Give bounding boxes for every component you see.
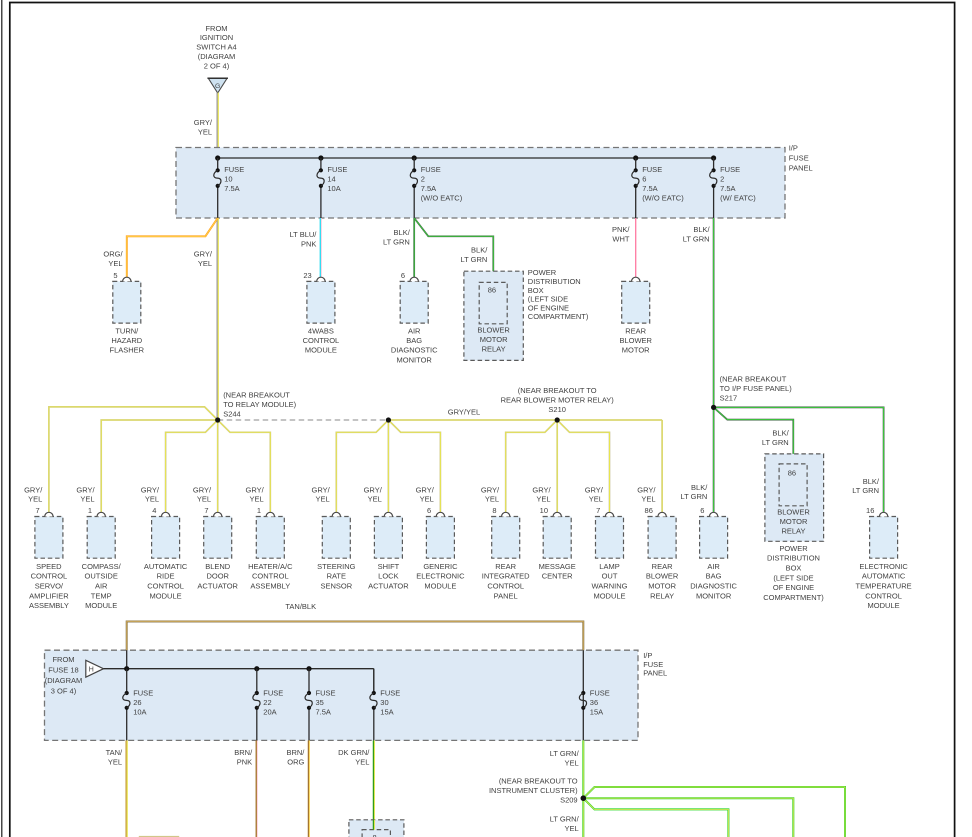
svg-text:FUSE: FUSE <box>133 689 153 698</box>
svg-text:BLOWER: BLOWER <box>477 326 510 335</box>
svg-text:YEL: YEL <box>250 495 264 504</box>
component: rear blower motor <box>619 277 652 355</box>
svg-text:OUT: OUT <box>602 572 618 581</box>
svg-text:8: 8 <box>492 506 496 515</box>
component: air bag diagnostic monitor (bottom), pin 6 <box>690 506 737 600</box>
svg-text:TAN/: TAN/ <box>106 748 123 757</box>
label GRY/YEL at x=336.3 <box>311 485 330 503</box>
svg-text:CONTROL: CONTROL <box>303 336 340 345</box>
svg-text:BAG: BAG <box>406 336 422 345</box>
svg-text:86: 86 <box>488 285 496 294</box>
component: SPEED CONTROL SERVO/ AMPLIFIER ASSEMBLY, pin 7 <box>29 506 69 610</box>
svg-text:ORG/: ORG/ <box>103 250 123 259</box>
svg-text:MODULE: MODULE <box>424 582 456 591</box>
wire GRY/YEL S244 to heater/A/C control assembly <box>218 420 271 512</box>
svg-text:PNK: PNK <box>237 758 252 767</box>
label DK GRN/YEL <box>338 748 370 767</box>
svg-text:PNK: PNK <box>301 239 316 248</box>
svg-text:ACTUATOR: ACTUATOR <box>368 582 409 591</box>
svg-text:S244: S244 <box>223 409 241 418</box>
svg-text:GRY/: GRY/ <box>76 485 95 494</box>
svg-text:REAR BLOWER MOTER RELAY): REAR BLOWER MOTER RELAY) <box>501 396 615 405</box>
svg-text:YEL: YEL <box>368 495 382 504</box>
svg-text:BLOWER: BLOWER <box>619 336 652 345</box>
I/P fuse panel (bottom) dashed box <box>45 650 639 740</box>
svg-text:7.5A: 7.5A <box>642 184 657 193</box>
svg-text:7.5A: 7.5A <box>316 708 331 717</box>
junction mid breakout dot <box>386 417 391 422</box>
junction dot on bottom bus at x=126.7 <box>124 666 129 671</box>
svg-text:RIDE: RIDE <box>157 572 175 581</box>
svg-text:G: G <box>215 83 220 90</box>
wire BRN/PNK from fuse 22 <box>256 740 257 837</box>
wire bus inside bottom I/P fuse panel <box>104 669 374 693</box>
wire DK GRN/YEL segment inside bottom box <box>373 820 374 830</box>
connector triangle H (from fuse 18) <box>86 660 104 677</box>
label GRY/YEL at x=48.9 <box>24 485 43 503</box>
svg-text:DISTRIBUTION: DISTRIBUTION <box>767 554 820 563</box>
svg-text:BRN/: BRN/ <box>234 748 253 757</box>
svg-text:MESSAGE: MESSAGE <box>539 562 576 571</box>
svg-text:14: 14 <box>327 175 335 184</box>
svg-text:TURN/: TURN/ <box>115 326 139 335</box>
component: electronic automatic temperature control module, pin 16 <box>856 506 912 610</box>
label (NEAR BREAKOUT TO INSTRUMENT CLUSTER) S209 <box>489 776 578 804</box>
wire GRY/YEL S210 to lamp out warning module <box>557 420 609 512</box>
svg-text:BLEND: BLEND <box>205 562 231 571</box>
svg-text:YEL: YEL <box>108 758 122 767</box>
svg-text:MOTOR: MOTOR <box>648 582 676 591</box>
wire BLK/LT GRN S217 to air bag diagnostic monitor (bottom) <box>713 407 715 512</box>
svg-text:SPEED: SPEED <box>36 562 62 571</box>
power distribution box (bottom) outer dashed box <box>765 454 824 541</box>
I/P fuse panel (top) dashed box <box>176 148 785 219</box>
wire GRY/YEL S210 to message center <box>556 420 558 512</box>
svg-text:BLK/: BLK/ <box>394 228 411 237</box>
svg-text:LT GRN: LT GRN <box>762 438 789 447</box>
fuse 14 10A <box>317 158 347 218</box>
svg-text:DOOR: DOOR <box>206 572 229 581</box>
wire GRY/YEL S210 to rear blower motor relay <box>661 420 663 512</box>
svg-text:DIAGNOSTIC: DIAGNOSTIC <box>391 346 438 355</box>
svg-text:AIR: AIR <box>95 582 108 591</box>
label BLK/LT GRN (blower motor relay) <box>460 245 488 263</box>
label GRY/YEL (S210 feed) <box>448 407 480 416</box>
fuse 30 15A <box>370 669 400 741</box>
label GRY/YEL at x=662.1 <box>637 485 656 503</box>
svg-text:FUSE: FUSE <box>316 689 336 698</box>
svg-text:YEL: YEL <box>485 495 499 504</box>
label GRY/YEL at x=270.3 <box>245 485 264 503</box>
svg-text:YEL: YEL <box>145 495 159 504</box>
component: AUTOMATIC RIDE CONTROL MODULE, pin 4 <box>144 506 188 600</box>
svg-text:6: 6 <box>401 271 405 280</box>
svg-text:MONITOR: MONITOR <box>696 591 732 600</box>
wire LT GRN/YEL S209 branch upper <box>583 787 845 837</box>
svg-text:FUSE: FUSE <box>720 165 740 174</box>
svg-text:PANEL: PANEL <box>494 591 518 600</box>
svg-text:MONITOR: MONITOR <box>397 355 433 364</box>
svg-text:LAMP: LAMP <box>599 562 619 571</box>
border frame left edge line <box>1 0 3 837</box>
svg-text:DK GRN/: DK GRN/ <box>338 748 370 757</box>
svg-text:LT BLU/: LT BLU/ <box>290 230 318 239</box>
svg-text:YEL: YEL <box>355 758 369 767</box>
svg-text:GRY/: GRY/ <box>364 485 383 494</box>
svg-text:COMPARTMENT): COMPARTMENT) <box>528 312 589 321</box>
svg-text:GRY/: GRY/ <box>194 118 213 127</box>
junction dot on bus at x=635.7 <box>633 155 638 160</box>
svg-text:DISTRIBUTION: DISTRIBUTION <box>528 277 581 286</box>
wire LT GRN/YEL S209 branch middle <box>583 798 793 837</box>
junction S210 <box>555 417 560 422</box>
fuse 26 10A <box>123 669 153 741</box>
svg-text:7: 7 <box>204 506 208 515</box>
svg-text:RELAY: RELAY <box>482 345 506 354</box>
svg-text:AIR: AIR <box>408 326 421 335</box>
svg-text:86: 86 <box>645 506 653 515</box>
label BLK/LT GRN (air bag bottom) <box>680 483 708 501</box>
svg-text:OF ENGINE: OF ENGINE <box>528 303 569 312</box>
svg-text:2: 2 <box>720 175 724 184</box>
svg-text:SWITCH A4: SWITCH A4 <box>196 43 236 52</box>
svg-text:MODULE: MODULE <box>305 346 337 355</box>
svg-text:WHT: WHT <box>612 234 629 243</box>
svg-text:GRY/: GRY/ <box>193 485 212 494</box>
svg-text:REAR: REAR <box>625 326 646 335</box>
svg-text:YEL: YEL <box>316 495 330 504</box>
label I/P FUSE PANEL (bottom panel) <box>643 651 667 678</box>
svg-text:LT GRN: LT GRN <box>852 486 879 495</box>
svg-text:(LEFT SIDE: (LEFT SIDE <box>773 573 813 582</box>
component: 4WABS control module, pin 23 <box>303 271 340 355</box>
svg-text:10: 10 <box>540 506 548 515</box>
svg-text:GRY/: GRY/ <box>141 485 160 494</box>
svg-text:FUSE: FUSE <box>642 165 662 174</box>
svg-text:BLK/: BLK/ <box>693 225 710 234</box>
component: SHIFT LOCK ACTUATOR, pin None <box>368 512 409 590</box>
svg-text:AIR: AIR <box>707 562 720 571</box>
label POWER DISTRIBUTION BOX (top) <box>528 268 589 321</box>
svg-text:GENERIC: GENERIC <box>423 562 458 571</box>
svg-text:SHIFT: SHIFT <box>378 562 400 571</box>
wire TAN/BLK from panel-2 bus up and over to fuse 36 <box>127 621 584 650</box>
svg-text:LT GRN: LT GRN <box>460 255 487 264</box>
junction S244 <box>215 417 220 422</box>
svg-text:FUSE: FUSE <box>327 165 347 174</box>
svg-text:YEL: YEL <box>108 259 122 268</box>
svg-text:MODULE: MODULE <box>85 601 117 610</box>
svg-text:ORG: ORG <box>287 758 304 767</box>
wire BRN/ORG from fuse 35 <box>308 740 309 837</box>
svg-text:PANEL: PANEL <box>789 163 813 172</box>
wire GRY/YEL S244 to blend door actuator <box>217 420 219 512</box>
svg-text:SERVO/: SERVO/ <box>35 582 64 591</box>
svg-text:GRY/: GRY/ <box>245 485 264 494</box>
svg-text:RATE: RATE <box>327 572 346 581</box>
svg-text:REAR: REAR <box>652 562 673 571</box>
component: air bag diagnostic monitor (top), pin 6 <box>391 271 438 365</box>
svg-text:15A: 15A <box>590 708 603 717</box>
wire GRY/YEL mid junction to shift lock actuator <box>387 420 389 512</box>
svg-text:HEATER/A/C: HEATER/A/C <box>248 562 293 571</box>
svg-text:YEL: YEL <box>197 495 211 504</box>
svg-text:(NEAR BREAKOUT: (NEAR BREAKOUT <box>720 374 787 383</box>
svg-text:YEL: YEL <box>198 259 212 268</box>
wire PNK/WHT from fuse 6 to rear blower motor <box>635 218 637 277</box>
svg-text:1: 1 <box>257 506 261 515</box>
fuse 35 7.5A <box>305 669 335 741</box>
svg-text:YEL: YEL <box>80 495 94 504</box>
svg-text:FROM: FROM <box>205 24 227 33</box>
svg-text:GRY/: GRY/ <box>416 485 435 494</box>
wire BLK/LT GRN from fuse 2 (W/ EATC) down to S217 <box>713 218 715 407</box>
svg-text:BOX: BOX <box>786 564 802 573</box>
svg-text:BLK/: BLK/ <box>691 483 708 492</box>
svg-text:MOTOR: MOTOR <box>780 517 808 526</box>
wire GRY/YEL S244 to automatic ride control module <box>166 420 218 512</box>
label TAN/YEL <box>106 748 123 767</box>
component: MESSAGE CENTER, pin 10 <box>539 506 576 581</box>
relay: blower motor relay (top) pin 86 box <box>477 282 510 353</box>
svg-text:2 OF 4): 2 OF 4) <box>204 61 230 70</box>
relay: blower motor relay (bottom) pin 86 box <box>777 464 810 536</box>
junction dot on bottom bus at x=256.8 <box>254 666 259 671</box>
label POWER DISTRIBUTION BOX (bottom) <box>763 544 824 602</box>
svg-text:GRY/: GRY/ <box>637 485 656 494</box>
svg-text:FUSE: FUSE <box>643 660 663 669</box>
svg-text:LT GRN: LT GRN <box>683 234 710 243</box>
svg-text:RELAY: RELAY <box>650 591 674 600</box>
svg-text:MODULE: MODULE <box>593 591 625 600</box>
wire GRY/YEL from fuse 10 down to S244 <box>217 218 218 420</box>
svg-text:YEL: YEL <box>420 495 434 504</box>
label GRY/YEL (main feed) <box>194 118 213 136</box>
label LT GRN/YEL (above S209) <box>550 749 580 768</box>
wire GRY/YEL mid junction to S210 and on to rear blower motor relay <box>388 419 662 421</box>
svg-text:5: 5 <box>113 271 117 280</box>
svg-text:7: 7 <box>596 506 600 515</box>
svg-text:DIAGNOSTIC: DIAGNOSTIC <box>690 582 737 591</box>
svg-text:INTEGRATED: INTEGRATED <box>482 572 530 581</box>
svg-text:YEL: YEL <box>198 128 212 137</box>
svg-text:TEMP: TEMP <box>91 591 112 600</box>
svg-text:HAZARD: HAZARD <box>111 336 142 345</box>
wire DK GRN/YEL from fuse 30 <box>373 740 374 829</box>
fuse 6 7.5A (W/O EATC) <box>632 158 684 218</box>
svg-text:IGNITION: IGNITION <box>200 33 233 42</box>
svg-text:ELECTRONIC: ELECTRONIC <box>416 572 465 581</box>
wire LT BLU/PNK from fuse 14 to 4WABS control module <box>320 218 321 277</box>
svg-text:MOTOR: MOTOR <box>480 335 508 344</box>
node: FROM FUSE 18 label <box>45 655 83 695</box>
fuse 36 15A <box>579 689 609 741</box>
svg-text:3 OF 4): 3 OF 4) <box>51 686 77 695</box>
label GRY/YEL at x=101.2 <box>76 485 95 503</box>
svg-text:(W/O EATC): (W/O EATC) <box>642 194 684 203</box>
label ORG/YEL <box>103 250 123 268</box>
svg-text:(W/ EATC): (W/ EATC) <box>720 194 756 203</box>
label GRY/YEL at x=609.5 <box>585 485 604 503</box>
svg-text:I/P: I/P <box>643 651 652 660</box>
svg-text:4WABS: 4WABS <box>308 326 334 335</box>
svg-text:LT GRN: LT GRN <box>383 237 410 246</box>
svg-text:(DIAGRAM: (DIAGRAM <box>198 52 236 61</box>
component: BLEND DOOR ACTUATOR, pin 7 <box>197 506 238 591</box>
wire bus inside I/P fuse panel <box>218 157 714 159</box>
svg-text:TAN/BLK: TAN/BLK <box>285 602 316 611</box>
svg-text:H: H <box>89 667 94 674</box>
power distribution box (top) outer dashed box <box>464 271 523 360</box>
svg-text:S217: S217 <box>720 393 738 402</box>
svg-text:22: 22 <box>263 698 271 707</box>
svg-text:FUSE: FUSE <box>224 165 244 174</box>
fuse 2 7.5A (W/O EATC) <box>410 158 462 218</box>
svg-text:(W/O EATC): (W/O EATC) <box>421 194 463 203</box>
svg-text:FUSE: FUSE <box>789 153 809 162</box>
wire LT GRN/YEL S209 branch lower <box>583 798 728 837</box>
power distribution style outer box (bottom, cropped) <box>349 820 404 837</box>
svg-text:CONTROL: CONTROL <box>252 572 289 581</box>
svg-text:(DIAGRAM: (DIAGRAM <box>45 676 83 685</box>
label LT BLU/PNK <box>290 230 318 248</box>
svg-text:STEERING: STEERING <box>317 562 356 571</box>
svg-text:10: 10 <box>224 175 232 184</box>
svg-text:GRY/: GRY/ <box>24 485 43 494</box>
svg-text:(NEAR BREAKOUT TO: (NEAR BREAKOUT TO <box>499 776 578 785</box>
label GRY/YEL (to S244) <box>194 250 213 268</box>
svg-text:ACTUATOR: ACTUATOR <box>197 582 238 591</box>
svg-text:35: 35 <box>316 698 324 707</box>
svg-text:YEL: YEL <box>641 495 655 504</box>
svg-text:OF ENGINE: OF ENGINE <box>773 583 814 592</box>
svg-text:YEL: YEL <box>536 495 550 504</box>
svg-text:15A: 15A <box>380 708 393 717</box>
label LT GRN/YEL (below S209) <box>550 814 580 833</box>
label GRY/YEL at x=440.4 <box>416 485 435 503</box>
svg-text:ASSEMBLY: ASSEMBLY <box>29 601 69 610</box>
svg-text:4: 4 <box>152 506 156 515</box>
svg-text:OUTSIDE: OUTSIDE <box>85 572 118 581</box>
svg-text:20A: 20A <box>263 708 276 717</box>
fuse 22 20A <box>253 669 283 741</box>
svg-text:6: 6 <box>427 506 431 515</box>
node: FROM IGNITION SWITCH A4 label <box>196 24 236 71</box>
svg-text:YEL: YEL <box>565 758 579 767</box>
svg-text:23: 23 <box>303 271 311 280</box>
label BLK/LT GRN (EATC) <box>852 477 880 495</box>
label BRN/PNK <box>234 748 253 767</box>
tan component edge (bottom left, cropped) <box>139 836 179 837</box>
svg-text:YEL: YEL <box>28 495 42 504</box>
wire TAN/YEL from fuse 26 <box>126 740 127 837</box>
junction dot on bus at x=320.9 <box>318 155 323 160</box>
label BRN/ORG <box>286 748 305 767</box>
junction dot on bus at x=414.2 <box>412 155 417 160</box>
svg-text:30: 30 <box>380 698 388 707</box>
svg-text:CENTER: CENTER <box>542 572 573 581</box>
svg-text:MODULE: MODULE <box>868 601 900 610</box>
svg-text:LT GRN/: LT GRN/ <box>550 814 580 823</box>
svg-text:16: 16 <box>866 506 874 515</box>
svg-text:TO RELAY MODULE): TO RELAY MODULE) <box>223 400 296 409</box>
svg-text:AUTOMATIC: AUTOMATIC <box>144 562 188 571</box>
wire LT GRN/YEL from fuse 36 down to S209 and beyond <box>582 740 584 837</box>
wire black riser to fuse 36 <box>582 650 584 693</box>
label PNK/WHT <box>612 225 630 243</box>
svg-text:GRY/: GRY/ <box>532 485 551 494</box>
svg-text:CONTROL: CONTROL <box>31 572 68 581</box>
svg-text:S209: S209 <box>560 795 578 804</box>
svg-text:AMPLIFIER: AMPLIFIER <box>29 591 69 600</box>
svg-text:26: 26 <box>133 698 141 707</box>
label GRY/YEL at x=505.7 <box>481 485 500 503</box>
svg-text:FROM: FROM <box>52 655 74 664</box>
label GRY/YEL at x=217.7 <box>193 485 212 503</box>
svg-text:BLK/: BLK/ <box>863 477 880 486</box>
component: HEATER/A/C CONTROL ASSEMBLY, pin 1 <box>248 506 293 591</box>
svg-text:2: 2 <box>421 175 425 184</box>
wire GRY/YEL from triangle G into I/P fuse panel <box>217 93 218 158</box>
svg-text:S210: S210 <box>548 405 566 414</box>
svg-text:FUSE 18: FUSE 18 <box>48 666 78 675</box>
svg-text:YEL: YEL <box>589 495 603 504</box>
svg-text:POWER: POWER <box>528 268 557 277</box>
label GRY/YEL at x=165.6 <box>141 485 160 503</box>
svg-text:REAR: REAR <box>495 562 516 571</box>
svg-text:GRY/: GRY/ <box>481 485 500 494</box>
svg-text:COMPASS/: COMPASS/ <box>82 562 122 571</box>
wire GRY/YEL mid junction to steering rate sensor <box>336 420 388 512</box>
svg-text:LT GRN: LT GRN <box>680 492 707 501</box>
label BLK/LT GRN (blower motor relay bottom) <box>762 429 790 447</box>
component: STEERING RATE SENSOR, pin None <box>317 512 356 590</box>
svg-text:6: 6 <box>700 506 704 515</box>
junction dot on bottom bus at x=309.0 <box>306 666 311 671</box>
label GRY/YEL at x=557.2 <box>532 485 551 503</box>
svg-text:6: 6 <box>642 175 646 184</box>
component: REAR INTEGRATED CONTROL PANEL, pin 8 <box>482 506 530 600</box>
svg-text:FUSE: FUSE <box>590 689 610 698</box>
svg-text:36: 36 <box>590 698 598 707</box>
svg-text:BLOWER: BLOWER <box>777 507 810 516</box>
svg-text:7: 7 <box>36 506 40 515</box>
svg-text:TO I/P FUSE PANEL): TO I/P FUSE PANEL) <box>720 384 793 393</box>
label (NEAR BREAKOUT TO REAR BLOWER MOTER RELAY) S210 <box>501 386 615 414</box>
component: GENERIC ELECTRONIC MODULE, pin 6 <box>416 506 465 591</box>
wire BLK/LT GRN S217 to blower motor relay (power dist box) <box>714 407 794 464</box>
svg-text:BOX: BOX <box>528 286 544 295</box>
label (NEAR BREAKOUT TO I/P FUSE PANEL) S217 <box>720 374 793 402</box>
junction S209 <box>581 795 587 801</box>
wire GRY/YEL S244 to speed control servo <box>49 407 218 513</box>
svg-text:CONTROL: CONTROL <box>487 582 524 591</box>
svg-text:(NEAR BREAKOUT TO: (NEAR BREAKOUT TO <box>518 386 597 395</box>
label BLK/LT GRN (air bag) <box>383 228 411 246</box>
svg-text:AUTOMATIC: AUTOMATIC <box>862 572 906 581</box>
svg-text:COMPARTMENT): COMPARTMENT) <box>763 593 824 602</box>
label TAN/BLK <box>285 602 316 611</box>
svg-text:LOCK: LOCK <box>378 572 398 581</box>
svg-text:GRY/: GRY/ <box>585 485 604 494</box>
svg-text:I/P: I/P <box>789 144 798 153</box>
wire BLK/LT GRN from fuse 2 to air bag diagnostic monitor <box>413 218 415 277</box>
wire black riser fuse-26 bus tap <box>126 650 128 669</box>
svg-text:GRY/: GRY/ <box>194 250 213 259</box>
component: REAR BLOWER MOTOR RELAY, pin 86 <box>645 506 679 600</box>
svg-text:10A: 10A <box>327 184 340 193</box>
junction dot on bus at x=217.7 <box>215 155 220 160</box>
